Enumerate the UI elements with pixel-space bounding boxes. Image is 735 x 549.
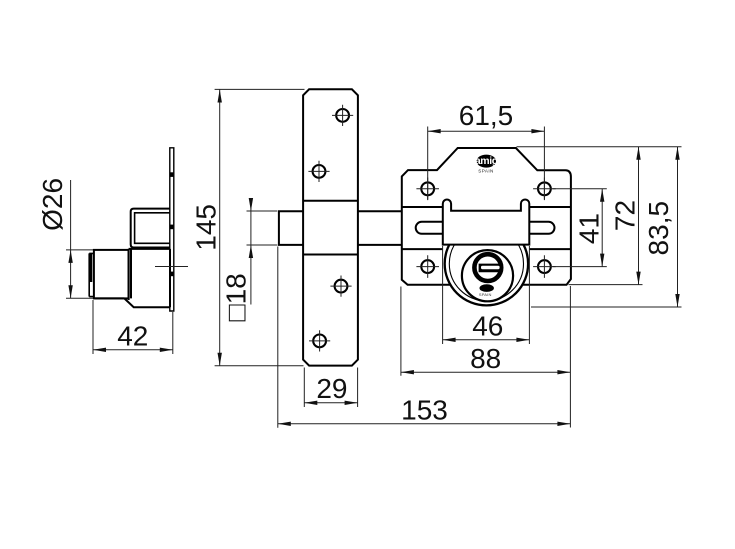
dim Ø26 lines <box>66 180 93 298</box>
svg-text:41: 41 <box>574 213 605 244</box>
46 arrows <box>443 338 456 342</box>
dim 88 lines <box>401 287 571 376</box>
screw hole P1 <box>332 105 353 126</box>
dim 41 lines <box>553 189 607 267</box>
key slot <box>479 264 502 273</box>
svg-text:SPAIN: SPAIN <box>479 292 492 297</box>
bolt guide with tabs <box>443 200 530 245</box>
61,5 arrows <box>428 129 441 133</box>
plate hole marks (edge-on) <box>170 172 173 276</box>
72 arrows <box>636 147 640 160</box>
tall plate outline <box>303 89 358 365</box>
screw hole P4 <box>309 330 330 351</box>
cylinder front cap <box>89 253 94 296</box>
screw hole P3 <box>330 276 351 297</box>
dim 153 lines <box>278 247 571 428</box>
right slot <box>529 222 554 234</box>
dim 145 lines <box>215 89 305 365</box>
bolt bar between plate and body <box>358 211 402 245</box>
83,5 arrows <box>675 147 679 160</box>
screw hole B4 <box>533 255 556 278</box>
145 arrows <box>218 90 222 103</box>
bolt bar left stub <box>279 211 303 245</box>
guide bracket (side) <box>131 209 170 248</box>
29 arrows <box>304 401 317 405</box>
18 arrows (outside) <box>249 198 253 211</box>
screw hole B1 <box>416 178 439 201</box>
dim 29 lines <box>304 368 357 408</box>
dim 83,5 lines <box>531 147 682 307</box>
bolt band across body <box>402 207 571 249</box>
cylinder rear block <box>95 249 170 307</box>
dim 61,5 lines <box>428 127 545 200</box>
42 arrows <box>93 348 106 352</box>
dim 46 lines <box>443 246 530 344</box>
screw hole P2 <box>308 161 329 182</box>
brand logo oval <box>477 155 497 168</box>
dim 72 lines <box>517 147 682 285</box>
svg-text:72: 72 <box>610 200 641 231</box>
cylinder barrel <box>94 250 129 299</box>
svg-text:61,5: 61,5 <box>459 100 514 131</box>
svg-text:SPAIN: SPAIN <box>478 169 493 174</box>
base plate (edge-on) <box>170 148 174 311</box>
svg-text:83,5: 83,5 <box>643 201 674 256</box>
keyhole ring <box>474 254 501 281</box>
cylinder outer thin circle <box>449 227 523 301</box>
screw hole B3 <box>416 255 439 278</box>
svg-text:153: 153 <box>401 395 448 426</box>
svg-text:amig: amig <box>475 155 498 167</box>
left slot <box>416 222 443 234</box>
41 arrows <box>600 189 604 202</box>
arrowheads <box>68 90 679 426</box>
svg-text:145: 145 <box>190 204 221 251</box>
dim 18 lines <box>247 198 278 305</box>
svg-text:46: 46 <box>472 310 503 341</box>
svg-text:Ø26: Ø26 <box>37 178 68 231</box>
cylinder outer circle <box>445 222 528 305</box>
svg-text:29: 29 <box>316 373 347 404</box>
svg-text:42: 42 <box>117 321 148 352</box>
153 arrows <box>278 422 291 426</box>
svg-text:88: 88 <box>470 343 501 374</box>
cylinder oval logo <box>480 284 494 292</box>
cylinder centerline <box>155 266 188 268</box>
plate guide band <box>303 201 358 255</box>
Ø26 arrows <box>68 250 72 263</box>
dim 42 lines <box>93 300 173 354</box>
svg-text:□18: □18 <box>221 273 252 321</box>
screw hole B2 <box>533 178 556 201</box>
body plate outline <box>402 148 571 285</box>
88 arrows <box>401 370 414 374</box>
cylinder face circle <box>462 250 513 301</box>
